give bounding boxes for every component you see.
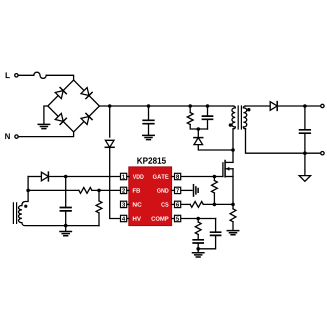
wire CS row to source: [203, 203, 233, 205]
wire rail to HV diode: [109, 106, 111, 137]
wire bulk cap to ground: [148, 124, 150, 136]
wire secondary bottom to output return: [246, 129, 321, 154]
ground at pin 7 (sideways): [193, 185, 195, 196]
bridge rectifier frame: [48, 80, 100, 132]
pin label GATE: [153, 174, 169, 178]
node CS-source junction: [231, 203, 235, 207]
bridge diode D4 (bottom-right, points to right): [81, 117, 89, 125]
transformer T1 primary winding: [233, 106, 235, 108]
node secondary polarity dot: [247, 108, 250, 111]
transistor Q1 (power MOSFET): [223, 161, 233, 205]
node COMP junction: [196, 217, 200, 221]
wire L to fuse: [19, 74, 34, 76]
fuse F1: [34, 72, 46, 78]
pin label FB: [133, 188, 140, 192]
pin 6 box: [172, 203, 175, 205]
bridge diode D1 (top-left, points to top): [55, 91, 63, 99]
wire VDD row to diode: [28, 176, 41, 178]
capacitor C4 (compensation): [193, 240, 203, 243]
wire rail to snubber resistor: [189, 106, 191, 113]
resistor R4 (current sense): [232, 204, 234, 208]
resistor R1 (snubber): [187, 113, 193, 125]
pin label HV: [133, 217, 141, 221]
wire clamp diode to drain node: [198, 145, 233, 150]
pin label GND: [157, 188, 168, 192]
capacitor C5 (comp parallel): [215, 219, 217, 233]
terminal output -: [321, 152, 324, 155]
wire pin 7 GND: [181, 189, 192, 191]
wire aux top to VDD row: [22, 177, 28, 206]
wire snubber resistor to clamp node: [190, 125, 207, 130]
ground at comp network: [197, 249, 199, 253]
resistor R2 (gate to CS): [213, 177, 215, 181]
pin 4 box: [127, 218, 129, 220]
pin label CS: [161, 202, 168, 206]
ground arrow (secondary): [299, 176, 310, 182]
wire secondary to output diode: [246, 105, 270, 107]
terminal output +: [321, 104, 324, 107]
ground at sense resistor: [227, 231, 238, 235]
node FB divider junction: [97, 189, 101, 193]
wire N to bridge bottom: [19, 132, 74, 137]
resistor R3 (CS filter): [190, 202, 203, 208]
pin 1 box: [127, 176, 129, 178]
node rail-bulk cap: [147, 104, 151, 108]
node clamp: [197, 127, 201, 131]
node drain-clamp junction: [231, 148, 235, 152]
diode D6 (clamp, points up): [194, 138, 203, 145]
capacitor C1 (bulk): [143, 120, 154, 123]
diode D8 (VDD rectifier): [41, 172, 48, 181]
node comp ground junction: [196, 247, 200, 251]
wire HV diode to pin 4: [110, 147, 120, 218]
wire output return to ground arrow: [304, 153, 306, 175]
node rail-snubber R: [188, 104, 192, 108]
pin 3 box: [127, 203, 129, 205]
resistor R6 (FB upper): [79, 188, 92, 194]
wire rail to snubber cap: [207, 106, 209, 116]
node rail-HV branch: [108, 104, 112, 108]
wire FB row: [28, 189, 79, 191]
capacitor C3 (output): [300, 130, 311, 133]
wire main rail: [99, 105, 233, 107]
diode D5 (HV startup, points down): [105, 140, 114, 147]
wire snubber cap to clamp node: [207, 119, 209, 129]
wire clamp node to diode: [197, 129, 199, 137]
pin label VDD: [133, 175, 144, 179]
terminal N: [15, 135, 18, 138]
wire rail to bulk cap: [148, 106, 150, 120]
node rail-snubber C: [206, 104, 210, 108]
capacitor C2 (snubber): [203, 116, 213, 119]
inductor L1 (aux winding): [18, 206, 21, 223]
node output return: [303, 151, 307, 155]
wire bridge left vertex to ground: [44, 106, 48, 124]
transformer T1 secondary winding: [243, 106, 245, 108]
node output positive: [303, 104, 307, 108]
op-amp U1 KP2815 body: [129, 167, 172, 226]
wire pin 6 CS: [181, 203, 190, 205]
wire pin 5 COMP: [181, 218, 215, 220]
wire aux bottom rail: [22, 223, 99, 226]
node primary polarity dot: [229, 123, 232, 126]
node gate-resistor junction: [213, 175, 217, 179]
pin 7 box: [172, 189, 175, 191]
pin label COMP: [151, 216, 168, 220]
wire diode to pin 1 VDD: [48, 176, 120, 178]
wire pin 8 GATE to MOSFET gate: [181, 176, 223, 178]
capacitor C6 (VDD): [65, 177, 67, 208]
ground at bridge: [38, 124, 49, 128]
node gate resistor to CS row: [213, 203, 217, 207]
ground at bulk cap: [143, 135, 154, 139]
wire fuse to bridge top: [46, 75, 73, 80]
node VDD cap junction: [64, 175, 68, 179]
bridge diode D2 (top-right, points to right): [81, 88, 89, 96]
transformer T1 core: [238, 106, 241, 129]
pin 8 box: [172, 176, 175, 178]
pin 5 box: [172, 218, 175, 220]
pin 2 box: [127, 189, 129, 191]
pin label NC: [133, 202, 142, 206]
node FB junction on riser: [26, 189, 30, 193]
U1 title KP2815: [137, 157, 166, 163]
ground at aux rail: [65, 226, 67, 232]
aux winding core: [13, 203, 16, 224]
wire output diode to terminal: [277, 105, 320, 107]
terminal L: [15, 74, 18, 77]
resistor R5 (compensation): [197, 219, 199, 223]
wire output cap bottom: [304, 133, 306, 153]
node aux polarity dot: [24, 205, 27, 208]
resistor R7 (FB lower): [98, 190, 100, 201]
node aux ground junction: [64, 224, 68, 228]
diode D7 (output rectifier): [270, 102, 277, 111]
wire primary bottom to MOSFET drain: [232, 129, 234, 163]
bridge diode D3 (bottom-left, points to bottom): [55, 113, 63, 121]
wire output cap top: [304, 106, 306, 130]
